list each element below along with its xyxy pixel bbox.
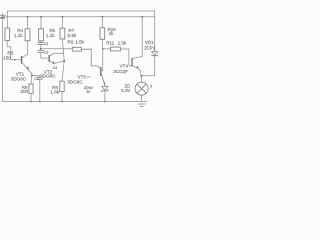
wire VT2 collector link (50, 53, 64, 56)
junction R5 on rail B (40, 16, 42, 18)
svg-text:1.8k: 1.8k (50, 89, 59, 94)
transistor VT1 (21, 56, 29, 70)
svg-text:3DG6C: 3DG6C (40, 73, 56, 78)
svg-text:VD1: VD1 (145, 40, 154, 45)
resistor R10 (100, 28, 105, 40)
junction R10 on rail B (101, 16, 103, 18)
wire VD1 to lamp node (141, 56, 154, 76)
svg-text:2CP1: 2CP1 (144, 45, 156, 50)
label lamp ZD (121, 84, 130, 94)
wire R4 to VT1 collector (22, 41, 27, 58)
junction VD2 on bottom rail (104, 101, 106, 103)
wire VT3 emitter to VD2 (102, 75, 106, 87)
resistor R6 (29, 84, 33, 93)
svg-text:1.5k: 1.5k (75, 40, 84, 45)
wire VT4 collector feed (133, 17, 142, 59)
svg-text:3V: 3V (86, 90, 91, 94)
wire emitter node to R6 (30, 76, 33, 84)
wire C1 to node (40, 44, 42, 50)
resistor R4 (25, 29, 30, 41)
label VT4 (113, 64, 128, 75)
svg-text:C1: C1 (44, 42, 48, 46)
svg-text:VT4: VT4 (120, 64, 129, 69)
transistor VT3 (100, 67, 105, 85)
label R7 (68, 28, 77, 38)
label R10 (108, 27, 116, 36)
label VT2 (40, 69, 56, 78)
svg-text:150: 150 (3, 55, 11, 60)
wire lamp top stub (141, 76, 143, 82)
zener diode VD2 (102, 86, 108, 92)
wire R3 to VT1 base (7, 41, 21, 60)
wire R11 to VT4 base (120, 49, 131, 66)
svg-text:6.3V: 6.3V (121, 88, 130, 93)
wire rail A left corner stub (6, 11, 8, 28)
wire VD2 to rail (104, 91, 106, 102)
label R8 (50, 85, 59, 95)
junction C1-C2 node to R9 (40, 48, 42, 50)
wire bottom rail (3, 101, 147, 103)
junction VT4 collector on rail B (141, 16, 143, 18)
wire node to R11 (103, 48, 111, 50)
label R4 (14, 28, 24, 38)
transistor VT2 (49, 55, 55, 65)
wire R10 to node (101, 39, 103, 49)
wire stray mark right of VT3 label (87, 76, 91, 78)
wire R5 feed (40, 17, 42, 29)
wire R9 to VT3 collector (81, 49, 100, 68)
node dots (14, 16, 143, 103)
label R5 (46, 28, 56, 38)
label R6 (20, 85, 28, 94)
wire R6 to rail (30, 93, 32, 101)
wire VT4 emitter to lamp node (133, 66, 141, 76)
wire C3 to rail (39, 79, 41, 101)
label R3 (3, 51, 14, 61)
junction R7 on rail B (62, 16, 64, 18)
svg-text:200: 200 (20, 89, 28, 94)
svg-text:VT1: VT1 (16, 71, 25, 76)
svg-text:3DG6C: 3DG6C (67, 80, 83, 85)
svg-text:R9: R9 (68, 40, 74, 45)
wire top rail A (7, 10, 154, 12)
junction R6 on bottom rail (30, 101, 32, 103)
label R11 (106, 41, 127, 46)
junction VT2 emitter node (63, 60, 65, 62)
wire emitter node to C3 (32, 76, 40, 78)
junction R4 on rail B (27, 16, 29, 18)
resistor R5 (39, 29, 44, 41)
wire node to R8 (62, 61, 64, 81)
wire R10 feed (101, 17, 103, 28)
label VT3 (67, 74, 86, 84)
wire node to VT3 base (101, 49, 102, 71)
junction VT1 base (14, 59, 16, 61)
resistor R9 (72, 47, 81, 51)
junction R10-R11 node (102, 48, 104, 50)
lamp ZD (135, 82, 148, 95)
wire R5 to C1 (40, 41, 42, 43)
svg-text:1.1k: 1.1k (14, 33, 23, 38)
junction C3 on bottom rail (39, 101, 41, 103)
label zener 2DW (84, 85, 93, 94)
label R9 (68, 40, 85, 45)
wire R4 feed (27, 17, 29, 29)
resistor R8 (60, 81, 64, 91)
label VT1 (11, 71, 27, 81)
resistor R3 (5, 28, 10, 41)
battery GB (0, 13, 5, 101)
svg-text:3DG6C: 3DG6C (11, 77, 27, 82)
svg-text:5.6k: 5.6k (68, 33, 77, 38)
svg-text:1.5k: 1.5k (118, 41, 127, 46)
wire R7 feed (61, 17, 63, 28)
svg-text:C2: C2 (44, 50, 48, 54)
junction R8 on bottom rail (61, 101, 63, 103)
svg-text:6: 6 (150, 85, 152, 89)
svg-text:1.1k: 1.1k (46, 33, 55, 38)
wire lamp bottom stub (141, 95, 143, 101)
wire VT1 emitter down (22, 63, 32, 76)
wire R7 chain down (62, 39, 64, 61)
svg-text:C3: C3 (34, 77, 38, 81)
wire VT2 emitter link (50, 61, 64, 64)
capacitor C2 (38, 51, 44, 53)
diode VD1 (152, 52, 158, 56)
wire C2 to VT2 base (41, 53, 49, 59)
wire rail B (3, 16, 155, 18)
capacitor C3 (37, 77, 42, 79)
wire node to R9 (41, 48, 73, 50)
resistor R7 (60, 28, 65, 39)
svg-text:C4: C4 (53, 66, 58, 70)
transistor VT4 (131, 58, 138, 69)
label VD1 (144, 40, 156, 51)
resistor R11 (110, 47, 120, 51)
wire R8 to rail (61, 92, 63, 102)
svg-text:R11: R11 (106, 41, 114, 46)
junction VT1 emitter node (31, 75, 33, 77)
ground (138, 104, 145, 106)
svg-text:3CG2F: 3CG2F (113, 69, 128, 74)
wire rail A to VD1 (154, 11, 156, 52)
capacitor C1 (38, 42, 44, 44)
junction lamp top node (141, 75, 143, 77)
